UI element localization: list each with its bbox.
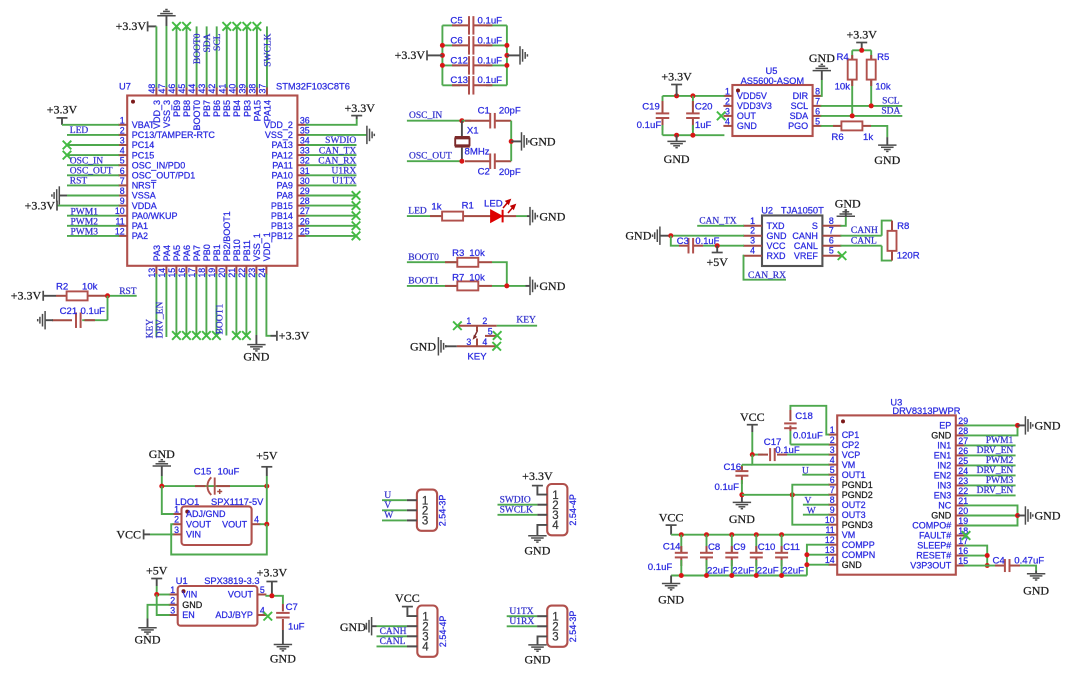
svg-text:R7: R7 xyxy=(452,273,464,284)
svg-text:32: 32 xyxy=(300,156,310,166)
wire PWM3 pin 12 xyxy=(67,228,119,238)
svg-text:C10: C10 xyxy=(758,542,776,553)
power +3.3V pin 1 xyxy=(47,103,119,125)
wire OUT3 W xyxy=(803,507,829,517)
svg-text:PB2/BOOT1: PB2/BOOT1 xyxy=(222,211,232,261)
wire CANL to R8 bottom xyxy=(882,246,892,261)
svg-text:10uF: 10uF xyxy=(218,466,240,477)
svg-text:1: 1 xyxy=(830,425,835,435)
wire COMPP COMPN GND loop xyxy=(804,545,829,576)
wire CANH net xyxy=(840,226,881,236)
wire SLEEP RESET loop xyxy=(964,546,990,569)
svg-text:45: 45 xyxy=(177,84,187,94)
svg-text:VCC: VCC xyxy=(659,511,684,525)
svg-text:47: 47 xyxy=(157,84,167,94)
svg-text:VCC: VCC xyxy=(740,410,765,424)
svg-text:C13: C13 xyxy=(450,75,468,86)
wire cap bank right bus xyxy=(506,25,508,85)
wire BOOT1 net xyxy=(407,277,458,287)
svg-text:16: 16 xyxy=(177,268,187,278)
svg-text:CANL: CANL xyxy=(851,236,877,246)
svg-text:PB8: PB8 xyxy=(182,100,192,117)
ground U2 S pin 8 xyxy=(835,197,861,226)
svg-text:+5V: +5V xyxy=(256,448,278,462)
svg-text:17: 17 xyxy=(187,268,197,278)
svg-text:C1: C1 xyxy=(478,106,490,117)
no-connect U5 OUT pin 3 xyxy=(717,112,726,121)
svg-text:0.1uF: 0.1uF xyxy=(478,55,503,66)
svg-text:COMPN: COMPN xyxy=(842,550,876,560)
svg-text:C2: C2 xyxy=(478,166,490,177)
junction dots cap bank right xyxy=(504,43,509,68)
svg-text:C3: C3 xyxy=(677,235,689,246)
svg-text:OUT2: OUT2 xyxy=(842,500,866,510)
svg-text:5: 5 xyxy=(830,465,835,475)
svg-text:U1TX: U1TX xyxy=(509,607,533,617)
svg-text:22: 22 xyxy=(958,486,968,496)
svg-text:GND: GND xyxy=(135,632,161,646)
svg-text:DRV8313PWPR: DRV8313PWPR xyxy=(892,406,960,416)
svg-text:6: 6 xyxy=(830,475,835,485)
wire pin 45 no-connect xyxy=(182,22,191,87)
svg-text:GND: GND xyxy=(842,560,863,570)
no-connect FAULT pin 18 xyxy=(962,531,971,540)
svg-text:12: 12 xyxy=(115,226,125,236)
svg-text:8: 8 xyxy=(815,86,820,96)
svg-text:SDA: SDA xyxy=(203,33,213,52)
svg-text:VDD_1: VDD_1 xyxy=(262,232,272,261)
svg-text:+3.3V: +3.3V xyxy=(25,198,56,212)
svg-text:1: 1 xyxy=(170,585,175,595)
svg-text:9: 9 xyxy=(830,505,835,515)
svg-text:VOUT: VOUT xyxy=(222,519,248,529)
svg-text:+3.3V: +3.3V xyxy=(257,565,288,579)
svg-text:31: 31 xyxy=(300,166,310,176)
svg-text:PB12: PB12 xyxy=(271,231,293,241)
svg-text:GND: GND xyxy=(270,652,296,666)
wire DRV_EN pin 24 xyxy=(964,466,1016,476)
svg-text:13: 13 xyxy=(825,545,835,555)
svg-text:C19: C19 xyxy=(642,101,660,112)
svg-text:10k: 10k xyxy=(835,82,851,93)
wire PGND1 PGND3 loop xyxy=(792,485,829,525)
svg-text:U7: U7 xyxy=(119,82,131,92)
svg-text:BOOT0: BOOT0 xyxy=(192,100,202,131)
svg-text:120R: 120R xyxy=(897,250,920,261)
IC U2 TJA1050T CAN transceiver xyxy=(743,206,841,267)
power +3.3V cap bank xyxy=(395,48,443,62)
svg-text:VCC: VCC xyxy=(395,591,420,605)
svg-text:S: S xyxy=(812,221,818,231)
svg-text:35: 35 xyxy=(300,125,310,135)
svg-text:VSS_3: VSS_3 xyxy=(162,100,172,128)
svg-text:OUT1: OUT1 xyxy=(842,470,866,480)
wire VOUT loop xyxy=(171,524,267,554)
svg-text:STM32F103C8T6: STM32F103C8T6 xyxy=(276,82,350,92)
svg-text:OSC_OUT/PD1: OSC_OUT/PD1 xyxy=(132,171,196,181)
svg-text:41: 41 xyxy=(217,84,227,94)
svg-text:19: 19 xyxy=(207,268,217,278)
svg-text:2.54-3P: 2.54-3P xyxy=(438,495,448,527)
svg-text:VREF: VREF xyxy=(794,251,819,261)
svg-text:24: 24 xyxy=(958,466,968,476)
svg-text:0.1uF: 0.1uF xyxy=(478,35,503,46)
svg-text:1: 1 xyxy=(174,505,179,515)
ground P3 pin 2 xyxy=(340,617,417,635)
svg-text:C6: C6 xyxy=(450,35,462,46)
svg-text:6: 6 xyxy=(815,106,820,116)
svg-text:3: 3 xyxy=(750,236,755,246)
power +5V U1 xyxy=(146,564,168,595)
svg-text:PA11: PA11 xyxy=(272,160,293,170)
ground LDO1 xyxy=(149,447,175,486)
wire BOOT0 pin 44 xyxy=(193,26,203,87)
capacitor C18 0.01uF xyxy=(784,410,823,445)
svg-text:IN1: IN1 xyxy=(937,441,951,451)
ground U3 EP xyxy=(1018,416,1061,434)
wire pin 3 no-connect xyxy=(63,141,119,150)
svg-text:PB4: PB4 xyxy=(232,100,242,117)
wire V3P3OUT xyxy=(964,565,998,567)
resistor R6 1k xyxy=(821,121,874,143)
svg-text:LED: LED xyxy=(70,126,89,136)
svg-text:5: 5 xyxy=(815,116,820,126)
wire OSC_IN xyxy=(407,111,465,123)
svg-text:OSC_IN: OSC_IN xyxy=(70,156,103,166)
svg-text:20pF: 20pF xyxy=(499,167,521,178)
resistor R2 xyxy=(56,281,108,300)
capacitor C6 0.1uF xyxy=(442,35,507,54)
svg-text:0.1uF: 0.1uF xyxy=(81,306,106,317)
svg-text:3: 3 xyxy=(422,516,428,528)
svg-text:IN3: IN3 xyxy=(937,481,951,491)
svg-text:2: 2 xyxy=(830,435,835,445)
ground crystal xyxy=(511,132,556,150)
svg-text:GND: GND xyxy=(524,544,550,558)
wire GND bus to pin 1 xyxy=(162,486,174,514)
svg-text:EN1: EN1 xyxy=(934,451,952,461)
svg-text:PA8: PA8 xyxy=(277,191,293,201)
svg-text:PA4: PA4 xyxy=(162,245,172,261)
wire OSC_OUT pin 6 xyxy=(67,166,119,176)
svg-text:2: 2 xyxy=(725,96,730,106)
svg-text:ADJ/GND: ADJ/GND xyxy=(186,509,226,519)
svg-text:8: 8 xyxy=(830,495,835,505)
wire CANL P3 pin 4 xyxy=(377,637,418,647)
capacitor C8 22uF xyxy=(700,535,729,577)
resistor R4 10k xyxy=(835,50,857,116)
svg-text:11: 11 xyxy=(116,216,125,226)
svg-text:C9: C9 xyxy=(733,542,745,553)
ground P2 pin 4 xyxy=(524,525,550,558)
LED D1 xyxy=(478,199,516,223)
svg-text:20: 20 xyxy=(958,506,968,516)
power +3.3V pin 36 xyxy=(305,101,375,125)
capacitor C9 22uF xyxy=(725,535,754,577)
svg-text:OSC_IN: OSC_IN xyxy=(409,111,442,121)
svg-text:5: 5 xyxy=(488,327,493,337)
wire CANL net xyxy=(840,236,881,246)
resistor R8 120R xyxy=(888,221,920,262)
svg-text:5: 5 xyxy=(120,156,125,166)
svg-text:5: 5 xyxy=(829,246,834,256)
svg-text:VSS_2: VSS_2 xyxy=(265,130,293,140)
wire pin 41 no-connect xyxy=(222,22,231,87)
wire RST pin 7 xyxy=(67,177,119,187)
svg-text:LED: LED xyxy=(484,199,503,210)
svg-text:GND: GND xyxy=(767,231,788,241)
svg-text:EP: EP xyxy=(939,421,951,431)
svg-text:4: 4 xyxy=(422,642,429,654)
svg-text:R8: R8 xyxy=(897,221,909,232)
svg-text:3: 3 xyxy=(552,632,558,644)
svg-text:OUT: OUT xyxy=(737,111,757,121)
svg-text:10k: 10k xyxy=(875,82,891,93)
resistor R5 10k xyxy=(867,50,891,106)
wire VOUT node xyxy=(265,593,282,598)
svg-text:15: 15 xyxy=(958,556,968,566)
svg-text:U1RX: U1RX xyxy=(509,617,534,627)
ground pin 47 VSS_3 xyxy=(157,10,175,88)
svg-text:38: 38 xyxy=(247,84,257,94)
svg-text:GND: GND xyxy=(809,51,835,65)
svg-text:PWM2: PWM2 xyxy=(71,217,99,227)
svg-text:12: 12 xyxy=(825,535,835,545)
svg-text:20pF: 20pF xyxy=(499,106,521,117)
svg-text:GND: GND xyxy=(1023,583,1049,597)
capacitor C17 0.1uF xyxy=(750,437,800,461)
wire U5 bottom bus xyxy=(663,133,725,138)
svg-text:PC15: PC15 xyxy=(132,150,155,160)
wire R6 to ground xyxy=(871,126,887,137)
svg-text:VCP: VCP xyxy=(842,450,861,460)
svg-text:KEY: KEY xyxy=(467,351,487,362)
capacitor C10 22uF xyxy=(750,535,779,577)
svg-text:C18: C18 xyxy=(795,411,813,422)
wire P1 pin 3 stub xyxy=(407,519,417,521)
svg-text:27: 27 xyxy=(958,436,968,446)
svg-text:C14: C14 xyxy=(663,542,681,553)
svg-text:1uF: 1uF xyxy=(288,622,305,633)
svg-text:PB6: PB6 xyxy=(212,100,222,117)
wire U1TX pin 30 xyxy=(305,177,356,187)
wire SWCLK net xyxy=(498,506,548,516)
svg-text:4: 4 xyxy=(750,246,755,256)
capacitor C16 0.1uF xyxy=(714,462,748,495)
svg-text:RXD: RXD xyxy=(767,251,787,261)
svg-text:SDA: SDA xyxy=(790,111,809,121)
svg-text:44: 44 xyxy=(187,84,197,94)
svg-text:VIN: VIN xyxy=(186,530,201,540)
wire PWM2 pin 25 xyxy=(964,456,1016,466)
wire GND to pin 2 xyxy=(668,233,744,238)
wire PWM1 pin 27 xyxy=(964,436,1016,446)
IC U7 STM32F103C8T6 xyxy=(115,82,350,278)
svg-text:PWM3: PWM3 xyxy=(71,228,99,238)
capacitor C12 0.1uF xyxy=(442,55,507,74)
svg-text:PGND2: PGND2 xyxy=(842,490,873,500)
svg-text:3: 3 xyxy=(466,337,471,347)
svg-text:KEY: KEY xyxy=(516,316,536,326)
svg-text:+3.3V: +3.3V xyxy=(395,48,426,62)
svg-text:2.54-4P: 2.54-4P xyxy=(568,494,578,526)
svg-text:PGND1: PGND1 xyxy=(842,480,873,490)
svg-text:OUT3: OUT3 xyxy=(842,510,866,520)
wire NC GND COMPO loop xyxy=(964,505,1020,525)
svg-text:3: 3 xyxy=(830,445,835,455)
svg-text:0.1uF: 0.1uF xyxy=(648,562,673,573)
svg-text:CP1: CP1 xyxy=(842,430,860,440)
capacitor C7 1uF xyxy=(276,596,305,633)
wire U1TX net xyxy=(507,607,548,617)
svg-text:1: 1 xyxy=(750,216,755,226)
svg-text:BOOT1: BOOT1 xyxy=(408,277,439,287)
power +3.3V pin 9 VDDA xyxy=(25,198,120,212)
svg-text:29: 29 xyxy=(958,416,968,426)
svg-text:4: 4 xyxy=(260,606,265,616)
svg-text:CANL: CANL xyxy=(794,241,818,251)
svg-text:3: 3 xyxy=(120,136,125,146)
wire pin 27 no-connect xyxy=(305,211,360,220)
svg-text:TJA1050T: TJA1050T xyxy=(781,206,824,216)
wire GND junction to C3 xyxy=(671,236,679,246)
svg-text:+3.3V: +3.3V xyxy=(47,103,78,117)
svg-text:43: 43 xyxy=(197,84,207,94)
wire crystal right bus xyxy=(509,121,514,162)
connector P3 2.54-4P CAN body xyxy=(417,606,448,657)
ground P4 pin 3 xyxy=(525,636,551,666)
svg-text:C16: C16 xyxy=(723,462,741,473)
svg-text:VCC: VCC xyxy=(767,241,787,251)
capacitor C13 0.1uF xyxy=(442,75,507,94)
svg-text:PWM1: PWM1 xyxy=(71,207,99,217)
svg-text:3: 3 xyxy=(174,525,179,535)
svg-text:PGO: PGO xyxy=(788,121,808,131)
wire P1 pin 2 stub xyxy=(407,509,417,511)
wire BOOT1 pin 20 xyxy=(215,274,226,336)
svg-text:30: 30 xyxy=(300,176,310,186)
svg-text:C7: C7 xyxy=(286,602,298,613)
wire PWM2 pin 11 xyxy=(67,217,119,227)
ground R6 xyxy=(874,137,900,167)
svg-text:+3.3V: +3.3V xyxy=(846,27,877,41)
svg-text:SWDIO: SWDIO xyxy=(500,495,531,505)
svg-text:+5V: +5V xyxy=(146,564,168,578)
svg-text:7: 7 xyxy=(830,485,835,495)
wire U3 ground bus xyxy=(671,573,807,578)
svg-text:4: 4 xyxy=(830,455,835,465)
wire pin 25 no-connect xyxy=(305,232,360,241)
svg-text:7: 7 xyxy=(815,96,820,106)
wire junction to C21 xyxy=(82,296,107,320)
wire U5 top bus xyxy=(663,93,725,98)
svg-text:GND: GND xyxy=(664,152,690,166)
svg-text:27: 27 xyxy=(300,206,310,216)
wire SCL net xyxy=(821,96,903,108)
svg-text:PA1: PA1 xyxy=(132,221,148,231)
wire C15 top bus xyxy=(159,484,269,489)
power +3.3V pin 24 xyxy=(266,274,309,343)
svg-text:DRV_EN: DRV_EN xyxy=(977,486,1014,496)
svg-text:18: 18 xyxy=(197,268,207,278)
svg-text:SCL: SCL xyxy=(791,101,809,111)
wire SWDIO pin 34 xyxy=(305,136,356,146)
svg-text:42: 42 xyxy=(207,84,217,94)
svg-text:GND: GND xyxy=(1035,419,1061,433)
svg-text:PA6: PA6 xyxy=(182,245,192,261)
wire P1 pin 1 stub xyxy=(407,499,417,501)
svg-text:36: 36 xyxy=(300,115,310,125)
ground cap bank xyxy=(507,46,528,64)
svg-text:U: U xyxy=(802,467,809,477)
svg-text:CAN_RX: CAN_RX xyxy=(748,271,786,281)
wire pin 19 no-connect xyxy=(212,274,221,340)
svg-text:DRV_EN: DRV_EN xyxy=(977,446,1014,456)
power VCC P3 pin 1 xyxy=(395,591,420,616)
svg-text:C20: C20 xyxy=(695,101,713,112)
svg-text:U2: U2 xyxy=(761,206,773,216)
power VCC U3 top xyxy=(740,410,765,455)
svg-text:PA12: PA12 xyxy=(272,150,293,160)
svg-text:R5: R5 xyxy=(877,52,889,63)
svg-text:PA7: PA7 xyxy=(192,245,202,261)
svg-text:28: 28 xyxy=(958,426,968,436)
svg-text:U1: U1 xyxy=(176,576,188,586)
wire CAN_TX pin 33 xyxy=(305,146,356,156)
svg-text:10: 10 xyxy=(825,515,835,525)
svg-text:VM: VM xyxy=(842,530,856,540)
connector P4 2.54-3P UART body xyxy=(547,606,578,647)
svg-text:C15: C15 xyxy=(194,466,212,477)
switch KEY xyxy=(453,316,537,363)
svg-text:GND: GND xyxy=(835,197,861,211)
wire SWCLK pin 37 xyxy=(263,26,273,87)
svg-text:GND: GND xyxy=(340,620,366,634)
svg-text:4: 4 xyxy=(725,116,730,126)
wire C17 to VCP xyxy=(787,454,829,456)
wire pin 26 no-connect xyxy=(305,222,360,231)
wire C18 to CP2 xyxy=(790,444,829,446)
ground U3 pin 20 xyxy=(1018,506,1061,524)
svg-text:GND: GND xyxy=(658,593,684,607)
svg-text:W: W xyxy=(384,511,393,521)
svg-text:RESET#: RESET# xyxy=(916,551,951,561)
svg-text:11: 11 xyxy=(826,525,835,535)
svg-text:29: 29 xyxy=(300,186,310,196)
svg-text:EN2: EN2 xyxy=(934,471,952,481)
ground C21 xyxy=(38,311,53,329)
svg-text:CAN_TX: CAN_TX xyxy=(699,216,737,226)
wire OSC_OUT xyxy=(407,152,465,164)
svg-text:PB10: PB10 xyxy=(232,239,242,261)
svg-text:PA10: PA10 xyxy=(272,171,293,181)
svg-text:SWDIO: SWDIO xyxy=(325,136,356,146)
wire SWDIO net xyxy=(498,495,548,505)
wire OSC_IN pin 5 xyxy=(67,156,119,166)
svg-text:PA2: PA2 xyxy=(132,231,148,241)
wire EP GND xyxy=(964,423,1020,436)
svg-text:40: 40 xyxy=(227,84,237,94)
svg-text:PGND3: PGND3 xyxy=(842,520,873,530)
svg-text:TXD: TXD xyxy=(767,221,786,231)
svg-text:SCL: SCL xyxy=(882,96,900,106)
svg-text:37: 37 xyxy=(257,84,267,94)
svg-text:PC14: PC14 xyxy=(132,140,155,150)
wire C3 to VCC pin 3 xyxy=(703,243,744,248)
connector P1 2.54-3P UVW body xyxy=(417,490,448,531)
svg-text:BOOT0: BOOT0 xyxy=(193,33,203,64)
svg-text:PB7: PB7 xyxy=(202,100,212,117)
